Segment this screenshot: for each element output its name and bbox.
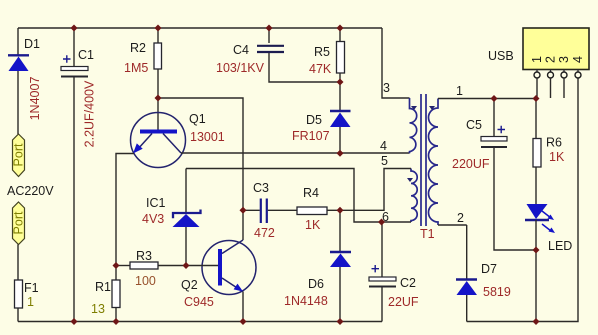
node C3 / Q2 collector bbox=[240, 207, 247, 214]
svg-text:2: 2 bbox=[457, 211, 464, 225]
node pin1 / R6 / USB1 bbox=[533, 95, 540, 102]
wire rail to transformer pin 3 bbox=[382, 28, 410, 98]
node zener / Q2 base bbox=[183, 262, 190, 269]
capacitor C2 bbox=[369, 222, 396, 322]
svg-text:IC1: IC1 bbox=[146, 196, 166, 210]
svg-text:1: 1 bbox=[27, 295, 34, 309]
wire pin 1 to USB bbox=[438, 98, 536, 100]
wire Q1 base node to Q2 collector bbox=[158, 98, 243, 240]
svg-text:D7: D7 bbox=[481, 262, 497, 276]
svg-text:4: 4 bbox=[571, 56, 585, 63]
svg-text:1K: 1K bbox=[305, 218, 321, 232]
wire Q2 emitter to rail bbox=[242, 292, 244, 322]
svg-text:R3: R3 bbox=[136, 249, 152, 263]
wire top rail (+HV net) bbox=[18, 27, 382, 29]
port Port (AC line) bbox=[12, 134, 26, 177]
svg-text:R5: R5 bbox=[314, 45, 330, 59]
svg-text:5: 5 bbox=[381, 154, 388, 168]
svg-text:1N4007: 1N4007 bbox=[28, 77, 42, 121]
svg-text:472: 472 bbox=[254, 226, 275, 240]
svg-text:C5: C5 bbox=[466, 118, 482, 132]
wire bottom rail secondary ground to USB pin 4 bbox=[467, 78, 578, 322]
svg-text:13: 13 bbox=[91, 302, 105, 316]
wire D1 cathode to rail bbox=[17, 28, 19, 55]
diode D7 bbox=[456, 225, 477, 322]
transistor Q2 bbox=[202, 240, 256, 295]
svg-text:Q2: Q2 bbox=[181, 278, 198, 292]
node secondary rail / LED branch bbox=[533, 318, 540, 325]
svg-text:4: 4 bbox=[380, 139, 387, 153]
resistor R5 bbox=[337, 28, 345, 111]
svg-text:2: 2 bbox=[544, 56, 558, 63]
node snubber C4/R5/D5 bbox=[337, 79, 344, 86]
svg-text:3: 3 bbox=[557, 56, 571, 63]
node bottom rail / Q2 emitter bbox=[240, 318, 247, 325]
svg-text:103/1KV: 103/1KV bbox=[216, 61, 265, 75]
wire R4/D6 node to pin 5 bbox=[340, 169, 411, 211]
resistor R1 bbox=[112, 280, 120, 308]
svg-text:LED: LED bbox=[548, 239, 572, 253]
svg-text:C945: C945 bbox=[184, 295, 214, 309]
svg-text:T1: T1 bbox=[420, 227, 435, 241]
svg-text:1: 1 bbox=[530, 56, 544, 63]
node top rail / R2 bbox=[155, 25, 162, 32]
transformer T1 secondary winding (pins 1-2) bbox=[429, 99, 439, 226]
wire Q1 emitter to R1 bbox=[116, 154, 134, 281]
diode D1 bbox=[8, 55, 29, 71]
svg-text:5819: 5819 bbox=[483, 285, 511, 299]
capacitor C1 bbox=[61, 28, 88, 322]
node pin5 / R4 / D6 bbox=[337, 207, 344, 214]
svg-text:D1: D1 bbox=[24, 37, 40, 51]
svg-text:47K: 47K bbox=[309, 62, 332, 76]
wire D1 anode to port bbox=[17, 71, 19, 134]
port Port (AC neutral) bbox=[12, 202, 26, 245]
svg-text:1N4148: 1N4148 bbox=[284, 294, 328, 308]
svg-text:Port: Port bbox=[12, 143, 26, 166]
zener IC1 bbox=[173, 169, 201, 266]
svg-text:3: 3 bbox=[383, 81, 390, 95]
svg-text:1: 1 bbox=[456, 84, 463, 98]
wire port to F1 bbox=[17, 245, 19, 281]
resistor R2 bbox=[154, 28, 162, 130]
resistor R6 bbox=[533, 99, 541, 205]
node bottom rail / C1 bbox=[71, 318, 78, 325]
svg-text:R4: R4 bbox=[303, 186, 319, 200]
wire USB pin 1 bbox=[536, 78, 538, 99]
wire USB pin 3 stub bbox=[563, 78, 565, 98]
node Q1 base bbox=[155, 95, 162, 102]
wire F1 to bottom rail bbox=[17, 308, 19, 322]
node top rail / C1 bbox=[71, 25, 78, 32]
capacitor C5 bbox=[481, 99, 536, 251]
svg-text:2.2UF/400V: 2.2UF/400V bbox=[83, 80, 97, 147]
svg-text:1M5: 1M5 bbox=[124, 61, 148, 75]
svg-text:220UF: 220UF bbox=[452, 157, 490, 171]
fuse F1 bbox=[15, 280, 23, 308]
svg-text:22UF: 22UF bbox=[388, 295, 419, 309]
wire pin 2 to D7 bbox=[438, 224, 467, 226]
transistor Q1 bbox=[131, 113, 186, 168]
wire zener cathode to pin 6 node bbox=[186, 169, 411, 223]
svg-text:100: 100 bbox=[135, 274, 156, 288]
svg-text:13001: 13001 bbox=[190, 130, 225, 144]
node top rail / R5 bbox=[337, 25, 344, 32]
svg-text:FR107: FR107 bbox=[292, 129, 330, 143]
resistor R3 bbox=[116, 262, 218, 269]
svg-text:C4: C4 bbox=[233, 43, 249, 57]
diode D5 bbox=[330, 111, 351, 153]
svg-text:C2: C2 bbox=[400, 276, 416, 290]
resistor R4 bbox=[297, 207, 327, 215]
USB connector bbox=[523, 28, 589, 78]
svg-text:AC220V: AC220V bbox=[7, 184, 54, 198]
LED bbox=[525, 204, 555, 322]
wire USB pin 2 stub bbox=[550, 78, 552, 98]
wire Q1 collector to transformer pin 4 bbox=[181, 152, 410, 154]
svg-text:D6: D6 bbox=[308, 277, 324, 291]
wire R4 to node bbox=[327, 209, 340, 211]
svg-text:Port: Port bbox=[12, 211, 26, 234]
svg-text:R6: R6 bbox=[546, 136, 562, 150]
svg-text:R2: R2 bbox=[130, 41, 146, 55]
svg-text:F1: F1 bbox=[24, 281, 39, 295]
capacitor C3 bbox=[243, 199, 297, 224]
node bottom rail / D6 anode bbox=[337, 318, 344, 325]
svg-text:C3: C3 bbox=[253, 181, 269, 195]
wire bottom rail (primary ground) bbox=[18, 321, 382, 323]
node bottom rail / R1 bbox=[113, 318, 120, 325]
svg-text:D5: D5 bbox=[306, 113, 322, 127]
svg-text:C1: C1 bbox=[78, 48, 94, 62]
svg-text:4V3: 4V3 bbox=[142, 212, 164, 226]
capacitor C4 bbox=[257, 28, 340, 82]
node LED cathode / C5 bbox=[533, 247, 540, 254]
node pin1 / C5 bbox=[491, 95, 498, 102]
svg-text:Q1: Q1 bbox=[189, 112, 206, 126]
node R1 / R3 bbox=[113, 262, 120, 269]
svg-text:1K: 1K bbox=[549, 150, 565, 164]
node pin4 / D5 anode bbox=[337, 150, 344, 157]
node top rail / C4 bbox=[266, 25, 273, 32]
transformer T1 core bbox=[421, 94, 426, 226]
svg-text:USB: USB bbox=[488, 49, 514, 63]
transformer T1 primary winding (pins 3-4) bbox=[410, 98, 418, 153]
svg-text:R1: R1 bbox=[95, 280, 111, 294]
transformer T1 auxiliary winding (pins 5-6) bbox=[407, 169, 417, 223]
node pin6 / C2 bbox=[378, 219, 385, 226]
diode D6 bbox=[330, 210, 351, 321]
wire R1 to rail bbox=[115, 308, 117, 322]
